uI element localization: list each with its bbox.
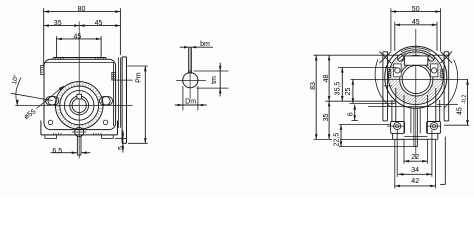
ext line 35p5 top <box>338 66 396 68</box>
ext line mounting plane <box>314 138 333 140</box>
svg-text:35: 35 <box>323 114 330 122</box>
output bore circle <box>402 65 430 93</box>
dimension Dm <box>182 86 184 110</box>
svg-text:45: 45 <box>95 20 103 27</box>
dimension 25 <box>352 79 354 103</box>
housing inner circle <box>388 50 443 105</box>
right inner pad with hatching <box>112 73 116 81</box>
left mounting hole <box>48 97 56 105</box>
svg-text:45: 45 <box>412 19 420 26</box>
body interior verticals <box>403 95 405 133</box>
left mounting slot <box>46 97 59 105</box>
dimension 42 ext lines <box>394 140 396 188</box>
top pad left with hatching <box>52 58 54 60</box>
svg-text:83: 83 <box>310 82 317 90</box>
frame corner line <box>444 137 446 185</box>
svg-text:tm: tm <box>211 76 218 84</box>
dimension Pm <box>128 65 148 67</box>
shaft section v centerline <box>189 47 191 99</box>
dimension 48 <box>328 55 330 101</box>
svg-text:5: 5 <box>118 146 125 150</box>
svg-text:Pm: Pm <box>135 72 142 83</box>
dimension 5 flange projection <box>115 137 126 139</box>
ext line shaft tip <box>339 146 414 148</box>
bore outer circle <box>70 96 89 115</box>
svg-text:-0,2: -0,2 <box>462 95 468 104</box>
worm band lower arc <box>402 55 430 60</box>
housing large arc left <box>375 60 390 107</box>
dimension 34 <box>398 173 432 175</box>
dimension 45 tolerance right side <box>437 104 458 106</box>
output flange plate edge view <box>121 57 123 143</box>
svg-text:6: 6 <box>348 112 355 116</box>
worm profile circle right <box>428 55 435 62</box>
bottom left plug circle <box>48 120 53 125</box>
flange inner pad left <box>388 70 391 78</box>
dimension bm <box>180 46 213 48</box>
svg-text:6,5: 6,5 <box>52 148 62 155</box>
svg-text:45: 45 <box>74 33 82 40</box>
dimension 45 top <box>395 24 437 26</box>
ext line foot top <box>339 124 391 126</box>
right mounting hole <box>102 97 110 105</box>
body line c <box>368 106 442 108</box>
diameter 55 leader <box>37 86 64 109</box>
housing large arc right <box>444 60 458 109</box>
bottom right plug circle <box>103 120 108 125</box>
flange hole mark left <box>379 51 391 63</box>
flange plate left <box>382 52 384 121</box>
flange hole mark right <box>440 51 452 63</box>
svg-text:42: 42 <box>411 178 419 185</box>
bottom boss walls <box>410 108 412 133</box>
dimension 22 <box>404 160 428 162</box>
worm profile circle left <box>397 55 404 62</box>
horizontal centerline left view <box>15 104 132 106</box>
svg-text:25: 25 <box>345 88 352 96</box>
housing circle <box>385 46 447 108</box>
left side lug with hatching <box>41 66 44 75</box>
svg-text:35: 35 <box>54 20 62 27</box>
keyway notch <box>77 94 82 99</box>
right view vertical centerline <box>415 29 417 159</box>
worm shaft end <box>76 136 78 155</box>
dimension 45 top pads <box>57 38 102 40</box>
feet bottom structure <box>40 121 42 135</box>
flange plate right <box>443 52 445 121</box>
svg-text:45: 45 <box>456 107 463 115</box>
dimension 35,5 <box>341 67 343 101</box>
vertical centerline left view <box>78 22 80 159</box>
worm shaft boss circle <box>75 127 84 136</box>
dimension 80 top <box>44 11 121 13</box>
svg-text:48: 48 <box>323 75 330 83</box>
bearing seat circle <box>64 91 94 121</box>
svg-text:bm: bm <box>200 41 210 48</box>
housing arc r29.5 <box>401 48 430 52</box>
worm tooth rect <box>405 56 428 65</box>
bearing block left <box>394 64 401 77</box>
svg-text:Dm: Dm <box>185 99 196 106</box>
top plateau <box>53 57 106 59</box>
bearing block right <box>431 64 438 77</box>
dimension 6 <box>354 105 356 121</box>
flange step line left <box>384 85 392 87</box>
dimension 6,5 shaft <box>51 152 77 154</box>
dimension 22 ext lines <box>403 139 405 163</box>
body walls <box>395 88 397 122</box>
body top line left <box>314 54 399 56</box>
base pad <box>392 133 394 139</box>
svg-text:80: 80 <box>78 6 86 13</box>
dimension 34 ext lines <box>396 130 398 177</box>
boss outer circle <box>55 82 103 130</box>
dimension 35 and 45 chain <box>44 25 121 27</box>
right mounting slot <box>100 97 113 105</box>
top pad right with hatching <box>94 58 96 60</box>
svg-text:22: 22 <box>411 154 419 161</box>
worm band upper arc <box>397 52 434 60</box>
bore circle <box>72 98 86 112</box>
motor shaft section circle <box>183 73 198 88</box>
dimension 50 top <box>391 11 441 13</box>
angle 10 degrees <box>11 93 53 100</box>
shaft section h centerline <box>176 79 206 81</box>
dimension 35 <box>328 101 330 139</box>
foot left <box>391 122 405 134</box>
svg-text:35,5: 35,5 <box>335 82 342 96</box>
output boss circle <box>400 63 433 96</box>
flange hub lines <box>117 58 119 128</box>
dimension tm <box>194 70 229 72</box>
right view horizontal centerline <box>351 78 468 80</box>
svg-text:34: 34 <box>411 167 419 174</box>
dimension 42 <box>395 185 436 187</box>
dimension 22,5 <box>340 125 342 147</box>
svg-text:50: 50 <box>412 6 420 13</box>
flange inner pad right <box>441 70 444 78</box>
body line a <box>325 100 396 102</box>
keyway slot walls <box>188 47 190 74</box>
body top line right <box>433 54 450 56</box>
flange feature line <box>116 79 133 81</box>
dimension 83 <box>315 55 317 139</box>
shaft end right view <box>413 108 415 147</box>
svg-text:22,5: 22,5 <box>334 133 341 147</box>
boss hatched ring <box>60 86 99 125</box>
worm shaft boss centerline <box>72 131 87 133</box>
body line b <box>350 102 396 104</box>
foot right <box>427 122 441 134</box>
gearbox body outline <box>44 59 116 129</box>
